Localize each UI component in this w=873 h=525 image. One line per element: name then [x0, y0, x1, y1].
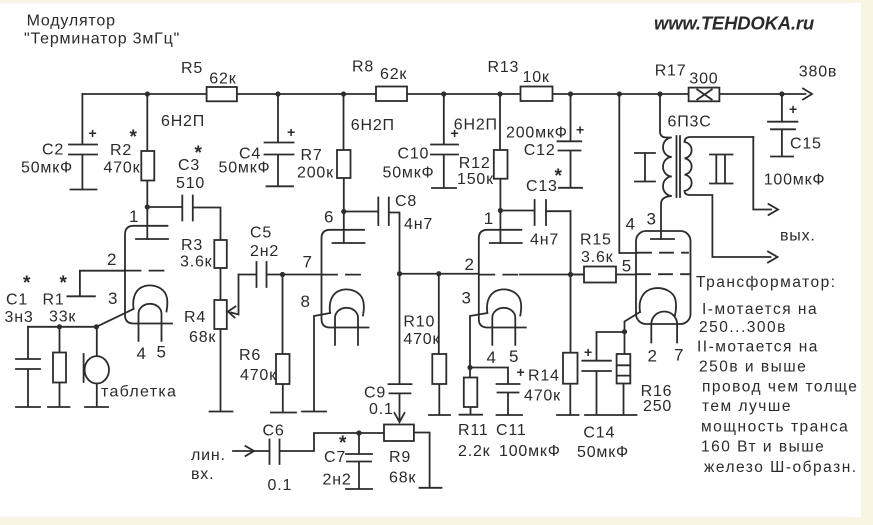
svg-text:C2: C2 — [42, 142, 64, 159]
svg-text:4: 4 — [137, 344, 146, 363]
svg-text:3.6к: 3.6к — [581, 249, 614, 266]
svg-text:C9: C9 — [364, 385, 386, 402]
svg-text:10к: 10к — [523, 69, 550, 86]
svg-text:вх.: вх. — [191, 466, 214, 483]
svg-text:6Н2П: 6Н2П — [454, 117, 498, 134]
svg-text:0.1: 0.1 — [268, 477, 293, 494]
svg-text:+: + — [287, 124, 295, 140]
svg-text:68к: 68к — [189, 329, 216, 346]
svg-text:50мкФ: 50мкФ — [219, 160, 271, 177]
svg-text:2: 2 — [648, 347, 657, 366]
svg-text:мощность транса: мощность транса — [701, 419, 849, 436]
svg-text:470к: 470к — [240, 367, 277, 384]
svg-text:470к: 470к — [104, 160, 141, 177]
svg-text:6Н2П: 6Н2П — [351, 117, 395, 134]
svg-text:380в: 380в — [799, 64, 837, 81]
svg-text:R7: R7 — [301, 147, 323, 164]
svg-text:C14: C14 — [583, 425, 615, 442]
svg-text:провод чем толще: провод чем толще — [702, 379, 858, 396]
svg-text:50мкФ: 50мкФ — [21, 160, 73, 177]
svg-text:*: * — [195, 143, 203, 164]
svg-text:+: + — [89, 125, 97, 141]
svg-text:R12: R12 — [459, 155, 491, 172]
svg-text:C15: C15 — [790, 136, 822, 153]
svg-text:100мкФ: 100мкФ — [499, 443, 561, 460]
svg-text:таблетка: таблетка — [101, 384, 177, 401]
svg-text:470к: 470к — [524, 388, 561, 405]
svg-text:510: 510 — [176, 175, 205, 192]
svg-text:8: 8 — [301, 292, 310, 311]
svg-text:железо Ш-образн.: железо Ш-образн. — [704, 459, 858, 476]
svg-text:2: 2 — [465, 255, 474, 274]
svg-text:вых.: вых. — [780, 228, 816, 245]
svg-text:C8: C8 — [395, 193, 417, 210]
svg-text:7: 7 — [674, 346, 683, 365]
svg-text:6: 6 — [324, 208, 333, 227]
svg-text:2: 2 — [107, 250, 116, 269]
svg-text:150к: 150к — [457, 171, 494, 188]
svg-text:+: + — [451, 125, 459, 141]
svg-text:C12: C12 — [524, 142, 556, 159]
svg-text:C13: C13 — [526, 178, 558, 195]
svg-text:1: 1 — [484, 209, 493, 228]
svg-text:6Н2П: 6Н2П — [161, 113, 205, 130]
svg-text:+: + — [517, 364, 525, 380]
svg-text:4: 4 — [487, 348, 496, 367]
svg-text:R9: R9 — [389, 449, 411, 466]
svg-text:100мкФ: 100мкФ — [764, 172, 826, 189]
svg-text:*: * — [23, 273, 31, 294]
svg-text:R5: R5 — [181, 60, 203, 77]
svg-text:250в и выше: 250в и выше — [699, 359, 807, 376]
svg-text:*: * — [555, 166, 563, 187]
svg-text:4н7: 4н7 — [530, 232, 559, 249]
svg-text:1: 1 — [129, 207, 138, 226]
svg-text:Модулятор: Модулятор — [27, 13, 116, 30]
svg-text:7: 7 — [303, 253, 312, 272]
svg-text:"Терминатор 3мГц": "Терминатор 3мГц" — [24, 31, 180, 48]
svg-text:0.1: 0.1 — [369, 401, 394, 418]
svg-text:50мкФ: 50мкФ — [383, 165, 435, 182]
svg-text:68к: 68к — [389, 470, 416, 487]
svg-text:R11: R11 — [458, 422, 489, 439]
svg-text:*: * — [60, 273, 68, 294]
svg-text:250...300в: 250...300в — [699, 319, 787, 336]
svg-text:www.TEHDOKA.ru: www.TEHDOKA.ru — [654, 13, 814, 34]
svg-text:R1: R1 — [43, 292, 65, 309]
svg-text:2н2: 2н2 — [323, 472, 352, 489]
svg-text:тем лучше: тем лучше — [702, 398, 792, 415]
svg-text:+: + — [584, 344, 592, 360]
svg-text:6П3С: 6П3С — [668, 114, 712, 131]
svg-text:5: 5 — [622, 257, 631, 276]
svg-text:R14: R14 — [528, 368, 560, 385]
svg-text:4: 4 — [626, 215, 635, 234]
svg-text:R15: R15 — [580, 232, 612, 249]
svg-text:I-мотается на: I-мотается на — [702, 301, 818, 318]
svg-text:R10: R10 — [403, 314, 435, 331]
svg-text:+: + — [576, 122, 584, 138]
svg-text:*: * — [130, 127, 138, 148]
svg-text:лин.: лин. — [191, 447, 226, 464]
svg-text:160 Вт и выше: 160 Вт и выше — [701, 439, 825, 456]
svg-text:470к: 470к — [403, 331, 440, 348]
svg-text:3н3: 3н3 — [5, 309, 34, 326]
svg-text:33к: 33к — [49, 309, 76, 326]
svg-text:2.2к: 2.2к — [458, 443, 491, 460]
svg-text:4н7: 4н7 — [404, 216, 433, 233]
svg-text:200мкФ: 200мкФ — [506, 125, 568, 142]
svg-text:R3: R3 — [181, 237, 203, 254]
svg-text:300: 300 — [689, 71, 718, 88]
svg-text:50мкФ: 50мкФ — [577, 444, 629, 461]
svg-text:62к: 62к — [209, 71, 236, 88]
svg-text:5: 5 — [157, 343, 166, 362]
svg-text:3: 3 — [108, 289, 117, 308]
svg-text:R17: R17 — [655, 63, 687, 80]
svg-text:2н2: 2н2 — [250, 243, 279, 260]
svg-text:C11: C11 — [496, 422, 527, 439]
svg-text:C1: C1 — [6, 292, 28, 309]
svg-text:3: 3 — [647, 210, 656, 229]
svg-text:3: 3 — [462, 289, 471, 308]
svg-text:200к: 200к — [297, 165, 334, 182]
svg-text:R8: R8 — [352, 59, 374, 76]
svg-text:C10: C10 — [398, 146, 430, 163]
svg-text:*: * — [339, 433, 347, 454]
svg-text:3.6к: 3.6к — [180, 254, 213, 271]
svg-text:Трансформатор:: Трансформатор: — [696, 274, 837, 291]
svg-text:R6: R6 — [239, 347, 261, 364]
svg-text:+: + — [789, 101, 797, 117]
svg-text:C6: C6 — [263, 423, 285, 440]
svg-text:R4: R4 — [184, 309, 206, 326]
svg-text:II-мотается на: II-мотается на — [697, 339, 819, 356]
svg-text:250: 250 — [643, 398, 672, 415]
svg-text:C5: C5 — [250, 225, 272, 242]
svg-text:R13: R13 — [488, 59, 520, 76]
svg-text:62к: 62к — [380, 66, 407, 83]
